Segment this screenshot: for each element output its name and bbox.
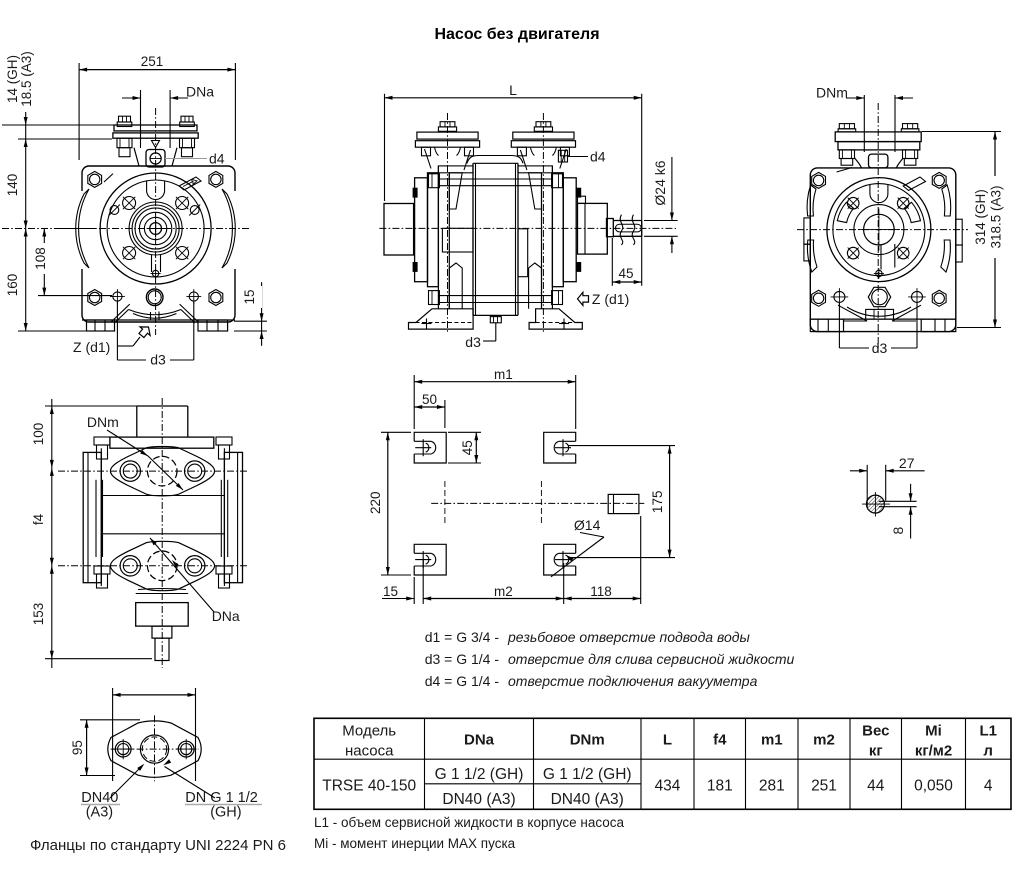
svg-text:4: 4 — [984, 778, 993, 795]
svg-text:m2: m2 — [813, 732, 835, 749]
svg-text:DNm: DNm — [87, 414, 119, 430]
svg-text:DNa: DNa — [186, 84, 214, 100]
svg-text:95: 95 — [70, 740, 85, 755]
svg-text:L1: L1 — [979, 723, 997, 740]
svg-text:220: 220 — [368, 491, 383, 514]
svg-text:d3: d3 — [150, 352, 166, 368]
svg-text:Насос без двигателя: Насос без двигателя — [434, 26, 599, 43]
svg-text:DN40 (A3): DN40 (A3) — [551, 791, 624, 808]
svg-text:Модель: Модель — [342, 723, 396, 740]
svg-text:175: 175 — [650, 491, 665, 514]
svg-text:251: 251 — [811, 778, 837, 795]
svg-text:153: 153 — [31, 603, 46, 626]
svg-text:0,050: 0,050 — [914, 778, 953, 795]
svg-text:d4: d4 — [209, 151, 225, 167]
svg-text:108: 108 — [33, 247, 48, 270]
svg-text:отверстие подключения вакуумет: отверстие подключения вакууметра — [508, 673, 758, 689]
svg-text:отверстие для слива сервисной: отверстие для слива сервисной жидкости — [508, 651, 795, 667]
svg-text:DN40 (A3): DN40 (A3) — [442, 791, 515, 808]
svg-text:251: 251 — [141, 54, 164, 69]
svg-text:L: L — [509, 82, 517, 98]
svg-text:18.5 (A3): 18.5 (A3) — [19, 51, 34, 107]
svg-text:f4: f4 — [31, 513, 46, 525]
svg-text:318.5 (A3): 318.5 (A3) — [988, 185, 1003, 248]
svg-text:DNm: DNm — [570, 732, 605, 749]
svg-text:Mi - момент инерции MAX пуска: Mi - момент инерции MAX пуска — [314, 836, 516, 851]
svg-text:m1: m1 — [761, 732, 783, 749]
svg-text:Ø24 k6: Ø24 k6 — [652, 160, 668, 205]
svg-text:DNa: DNa — [212, 608, 240, 624]
svg-text:TRSE 40-150: TRSE 40-150 — [322, 778, 416, 795]
svg-text:44: 44 — [867, 778, 885, 795]
svg-text:L1 - объем сервисной жидкости: L1 - объем сервисной жидкости в корпусе … — [314, 815, 625, 830]
svg-text:Z (d1): Z (d1) — [592, 291, 629, 307]
svg-text:Mi: Mi — [925, 723, 942, 740]
svg-text:8: 8 — [890, 526, 906, 534]
svg-text:d1 = G 3/4 -: d1 = G 3/4 - — [425, 629, 500, 645]
svg-text:100: 100 — [31, 423, 46, 446]
svg-text:14 (GH): 14 (GH) — [5, 55, 20, 103]
svg-text:Фланцы по стандарту UNI 2224 P: Фланцы по стандарту UNI 2224 PN 6 — [30, 837, 286, 854]
svg-text:DNa: DNa — [464, 732, 495, 749]
svg-text:d4: d4 — [590, 149, 606, 165]
svg-text:G 1 1/2 (GH): G 1 1/2 (GH) — [435, 766, 524, 783]
svg-text:Z (d1): Z (d1) — [73, 339, 110, 355]
svg-text:d3 = G 1/4 -: d3 = G 1/4 - — [425, 651, 500, 667]
svg-text:181: 181 — [707, 778, 733, 795]
svg-text:45: 45 — [618, 266, 633, 281]
svg-text:кг: кг — [869, 743, 883, 760]
svg-text:45: 45 — [460, 440, 475, 455]
svg-text:160: 160 — [5, 274, 20, 297]
svg-text:(GH): (GH) — [210, 805, 241, 821]
svg-text:434: 434 — [655, 778, 681, 795]
svg-text:Вес: Вес — [862, 723, 889, 740]
svg-text:насоса: насоса — [345, 743, 394, 760]
svg-text:Ø14: Ø14 — [574, 517, 601, 533]
svg-text:140: 140 — [5, 174, 20, 197]
svg-text:118: 118 — [590, 584, 612, 599]
svg-text:(A3): (A3) — [86, 805, 113, 821]
svg-text:f4: f4 — [713, 732, 727, 749]
svg-text:G 1 1/2 (GH): G 1 1/2 (GH) — [543, 766, 632, 783]
svg-text:d3: d3 — [465, 334, 481, 350]
svg-text:DNm: DNm — [816, 85, 848, 101]
svg-text:15: 15 — [242, 289, 257, 304]
svg-text:кг/м2: кг/м2 — [915, 743, 952, 760]
svg-text:d3: d3 — [872, 340, 888, 356]
svg-text:314 (GH): 314 (GH) — [973, 189, 988, 245]
svg-text:m2: m2 — [494, 584, 513, 599]
svg-text:резьбовое отверстие подвода во: резьбовое отверстие подвода воды — [507, 629, 751, 645]
svg-text:m1: m1 — [494, 367, 513, 382]
svg-text:15: 15 — [383, 584, 398, 599]
svg-text:d4 = G 1/4 -: d4 = G 1/4 - — [425, 673, 500, 689]
svg-text:л: л — [983, 743, 993, 760]
svg-text:27: 27 — [899, 455, 915, 471]
svg-text:50: 50 — [422, 392, 437, 407]
svg-text:L: L — [663, 732, 672, 749]
svg-text:281: 281 — [759, 778, 785, 795]
